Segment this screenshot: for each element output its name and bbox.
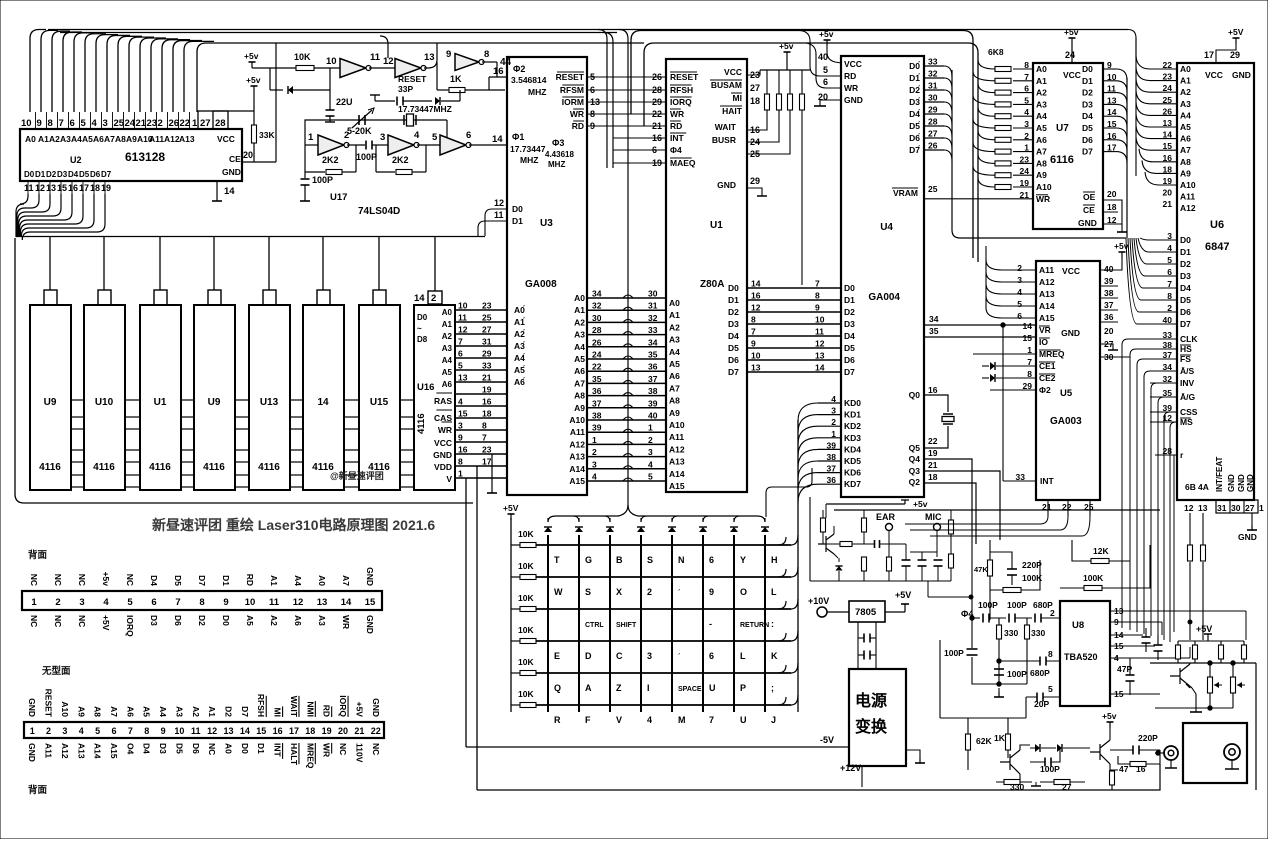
svg-text:15: 15 xyxy=(458,409,468,419)
svg-text:A3: A3 xyxy=(669,335,680,345)
svg-text:23: 23 xyxy=(147,118,158,129)
svg-text:21: 21 xyxy=(354,726,364,736)
svg-text:D4: D4 xyxy=(728,331,739,341)
transistor bottom right xyxy=(1090,740,1110,764)
svg-text:37: 37 xyxy=(648,374,658,384)
svg-text:A1́: A1́ xyxy=(514,316,526,327)
svg-text:19: 19 xyxy=(101,183,111,193)
svg-text:2: 2 xyxy=(158,118,163,129)
svg-text:VDD: VDD xyxy=(434,462,452,472)
svg-text:100P: 100P xyxy=(356,152,377,162)
svg-text:A11: A11 xyxy=(44,743,54,758)
svg-text:5: 5 xyxy=(1017,299,1022,309)
svg-text:Z80A: Z80A xyxy=(700,279,724,290)
svg-text:2: 2 xyxy=(46,726,51,736)
ground U6 xyxy=(1251,513,1253,525)
svg-text:U3: U3 xyxy=(540,218,553,229)
svg-text:14: 14 xyxy=(751,279,761,289)
svg-text:U13: U13 xyxy=(260,397,279,408)
svg-text:Q4: Q4 xyxy=(909,454,921,464)
resistor 10K xyxy=(296,66,314,71)
svg-text:G: G xyxy=(585,555,592,565)
ground U2 pin14 xyxy=(216,181,218,196)
svg-text:GA003: GA003 xyxy=(1050,416,1082,427)
audio resistors top row xyxy=(821,518,826,532)
svg-text:GND: GND xyxy=(1238,532,1257,542)
svg-text:GND: GND xyxy=(222,167,241,177)
capacitor 22U xyxy=(326,109,335,111)
svg-text:6: 6 xyxy=(151,597,156,608)
svg-text:MI: MI xyxy=(273,708,283,717)
svg-text:A7: A7 xyxy=(341,575,351,586)
svg-text:22: 22 xyxy=(928,436,938,446)
svg-text:WR: WR xyxy=(844,83,858,93)
svg-text:A8: A8 xyxy=(669,396,680,406)
svg-text:IORQ: IORQ xyxy=(338,695,348,717)
svg-text:15: 15 xyxy=(365,597,376,608)
svg-text:A14: A14 xyxy=(569,464,585,474)
svg-text:RD: RD xyxy=(322,705,332,717)
svg-text:A12: A12 xyxy=(164,134,180,144)
svg-text:220P: 220P xyxy=(1138,733,1158,743)
svg-text:34: 34 xyxy=(592,289,602,299)
svg-text:7: 7 xyxy=(128,726,133,736)
svg-text:背面: 背面 xyxy=(28,549,48,561)
svg-text:6: 6 xyxy=(466,130,471,141)
svg-text:1K: 1K xyxy=(450,74,462,84)
svg-text:8: 8 xyxy=(484,49,489,60)
IC U9 4116 xyxy=(194,305,235,490)
svg-text:7: 7 xyxy=(815,279,820,289)
svg-text:21: 21 xyxy=(1163,199,1173,209)
svg-text:D6: D6 xyxy=(191,743,201,754)
svg-text:35: 35 xyxy=(648,350,658,360)
svg-text:40: 40 xyxy=(648,411,658,421)
svg-text:6: 6 xyxy=(709,651,714,661)
svg-text:1: 1 xyxy=(648,423,653,433)
wire cassette in vertical xyxy=(809,497,811,581)
svg-text:14: 14 xyxy=(240,726,250,736)
svg-text:WR: WR xyxy=(670,109,684,119)
svg-text:NMI: NMI xyxy=(305,701,315,717)
svg-text:D2: D2 xyxy=(197,615,207,626)
svg-text:5: 5 xyxy=(1048,684,1053,694)
svg-text:35: 35 xyxy=(929,326,939,336)
svg-text:6: 6 xyxy=(709,555,714,565)
svg-text:A15: A15 xyxy=(569,476,585,486)
svg-text:VRAM: VRAM xyxy=(893,188,918,198)
svg-text:10K: 10K xyxy=(294,52,311,62)
svg-text:D2: D2 xyxy=(224,706,234,717)
svg-text:A5́: A5́ xyxy=(514,364,526,375)
svg-text:5: 5 xyxy=(81,118,87,129)
svg-text:20: 20 xyxy=(1104,326,1114,336)
svg-text:D0: D0 xyxy=(24,170,35,179)
wire D-bus vertical left xyxy=(15,238,473,503)
svg-text:16: 16 xyxy=(68,183,78,193)
IC U4 GA004 xyxy=(841,56,924,497)
svg-text:A3́: A3́ xyxy=(514,340,526,351)
svg-text:A0: A0 xyxy=(442,308,453,317)
svg-text:U8: U8 xyxy=(1072,620,1084,631)
svg-text:A4: A4 xyxy=(1180,110,1191,120)
svg-text:5: 5 xyxy=(648,472,653,482)
svg-text:30: 30 xyxy=(1231,503,1241,513)
svg-text:+5v: +5v xyxy=(246,75,261,85)
svg-text:330: 330 xyxy=(1031,628,1045,638)
svg-text:RESET: RESET xyxy=(670,72,699,82)
svg-text:4116: 4116 xyxy=(258,462,280,473)
svg-text:A1: A1 xyxy=(38,134,49,144)
svg-text:A13: A13 xyxy=(669,457,685,467)
svg-text:SPACE: SPACE xyxy=(678,686,702,693)
svg-text:CSS: CSS xyxy=(1180,407,1198,417)
svg-text:10: 10 xyxy=(326,56,337,67)
svg-text:4: 4 xyxy=(92,118,98,129)
svg-text:+5V: +5V xyxy=(895,590,911,600)
svg-text:16: 16 xyxy=(482,397,492,407)
svg-text:39: 39 xyxy=(648,398,658,408)
svg-text:A14: A14 xyxy=(1039,301,1055,311)
svg-text:A15: A15 xyxy=(669,481,685,491)
resistor 2K2 b xyxy=(375,145,377,172)
IC U2 613128 ROM xyxy=(20,129,242,181)
svg-text:A3: A3 xyxy=(574,330,585,340)
svg-text:A8: A8 xyxy=(1180,157,1191,167)
svg-text:CE: CE xyxy=(229,154,241,164)
svg-text:U6: U6 xyxy=(1210,219,1224,231)
svg-text:A9: A9 xyxy=(126,134,137,144)
svg-text:D7: D7 xyxy=(728,367,739,377)
svg-text:NC: NC xyxy=(53,574,63,586)
wire A-bus line2 xyxy=(60,32,617,34)
svg-text:D3: D3 xyxy=(149,615,159,626)
svg-text:CTRL: CTRL xyxy=(585,622,604,629)
svg-text:A5: A5 xyxy=(1036,123,1047,133)
svg-text:A2: A2 xyxy=(442,332,453,341)
svg-text:3: 3 xyxy=(647,651,652,661)
wire bundle U5 bottom to left xyxy=(905,516,1090,536)
svg-text:1: 1 xyxy=(592,435,597,445)
svg-text:BUSAM: BUSAM xyxy=(711,80,742,90)
svg-text:A6: A6 xyxy=(442,380,453,389)
svg-text:6: 6 xyxy=(823,77,828,87)
trimmer 5-20K xyxy=(358,115,360,125)
diode reset xyxy=(288,86,293,94)
svg-text:D4: D4 xyxy=(1082,111,1093,121)
svg-text:INV: INV xyxy=(1180,378,1195,388)
svg-text:A12: A12 xyxy=(569,439,585,449)
svg-text:10: 10 xyxy=(174,726,184,736)
svg-text:25: 25 xyxy=(482,313,492,323)
svg-text:D5: D5 xyxy=(844,343,855,353)
svg-text:V: V xyxy=(616,715,622,725)
svg-text:21: 21 xyxy=(482,373,492,383)
svg-text:2K2: 2K2 xyxy=(392,155,409,165)
svg-text:+5v: +5v xyxy=(779,41,794,51)
svg-text:2: 2 xyxy=(431,293,436,304)
svg-text:RAS: RAS xyxy=(434,396,452,406)
svg-text:12K: 12K xyxy=(1093,546,1109,556)
resistor 2K2 a xyxy=(304,145,306,172)
svg-text:100P: 100P xyxy=(312,175,333,185)
svg-text:GA008: GA008 xyxy=(525,279,557,290)
svg-text:A1: A1 xyxy=(1036,76,1047,86)
svg-text:U10: U10 xyxy=(95,397,114,408)
svg-text:100P: 100P xyxy=(978,600,998,610)
svg-text:12: 12 xyxy=(751,303,761,313)
svg-text:NC: NC xyxy=(29,574,39,586)
svg-text:A3: A3 xyxy=(317,615,327,626)
svg-text:A4: A4 xyxy=(669,347,680,357)
svg-text:26: 26 xyxy=(928,141,938,151)
svg-text:30: 30 xyxy=(648,289,658,299)
svg-text:21: 21 xyxy=(928,460,938,470)
transistor out xyxy=(1170,663,1192,688)
svg-text:29: 29 xyxy=(750,176,760,186)
svg-text:15: 15 xyxy=(256,726,266,736)
wire U7 D bus vertical xyxy=(1126,78,1128,238)
wire D-bus horizontal to DRAMs xyxy=(16,236,485,238)
wire U3 D0 D1 stubs xyxy=(478,209,507,236)
svg-text:4: 4 xyxy=(1017,287,1022,297)
svg-text:NC: NC xyxy=(77,574,87,586)
svg-text:A7: A7 xyxy=(104,134,115,144)
svg-text:A12: A12 xyxy=(1039,277,1055,287)
svg-text:A10: A10 xyxy=(669,420,685,430)
svg-text:1: 1 xyxy=(192,118,198,129)
svg-text:RESET: RESET xyxy=(556,72,585,82)
svg-text:110V: 110V xyxy=(354,743,364,763)
svg-text:11: 11 xyxy=(370,52,381,63)
svg-text:28: 28 xyxy=(928,117,938,127)
svg-text:D2: D2 xyxy=(1082,88,1093,98)
svg-text:D7: D7 xyxy=(844,367,855,377)
svg-text:16: 16 xyxy=(493,66,504,77)
svg-text:A8: A8 xyxy=(1036,158,1047,168)
svg-text:2K2: 2K2 xyxy=(322,155,339,165)
ground U16 xyxy=(491,454,493,488)
svg-text:NC: NC xyxy=(125,574,135,586)
svg-text:27: 27 xyxy=(1245,503,1255,513)
svg-text:3: 3 xyxy=(79,597,84,608)
svg-text:变换: 变换 xyxy=(855,717,888,736)
svg-text:8: 8 xyxy=(1048,649,1053,659)
svg-text:9: 9 xyxy=(458,433,463,443)
keyboard column 4 xyxy=(640,535,642,712)
svg-text:31: 31 xyxy=(1217,503,1227,513)
svg-text:3: 3 xyxy=(380,132,385,143)
svg-text:18: 18 xyxy=(482,409,492,419)
svg-text:A6: A6 xyxy=(293,615,303,626)
svg-text:D0: D0 xyxy=(221,615,231,626)
wire A-bus line to U6 xyxy=(48,29,1128,31)
svg-text:33: 33 xyxy=(482,361,492,371)
svg-text:6: 6 xyxy=(458,349,463,359)
IC U10 4116 xyxy=(84,305,125,490)
svg-text:1K: 1K xyxy=(994,733,1006,743)
capacitors under 7805 xyxy=(858,622,876,668)
svg-text:31: 31 xyxy=(482,337,492,347)
svg-text:4.43618: 4.43618 xyxy=(545,150,574,159)
svg-text:GND: GND xyxy=(365,567,375,586)
svg-text:4A: 4A xyxy=(1198,482,1209,492)
svg-text:OE: OE xyxy=(1083,192,1096,202)
svg-text:WAIT: WAIT xyxy=(715,122,737,132)
svg-text:3: 3 xyxy=(62,726,67,736)
svg-text:D0: D0 xyxy=(728,283,739,293)
svg-text:U1: U1 xyxy=(154,397,167,408)
svg-text:+12V: +12V xyxy=(840,763,861,773)
svg-text:U5: U5 xyxy=(1060,388,1073,399)
keyboard column 6 xyxy=(702,535,704,712)
svg-text:D5: D5 xyxy=(728,343,739,353)
svg-text:11: 11 xyxy=(269,597,280,608)
svg-text:23: 23 xyxy=(482,445,492,455)
svg-text:A1: A1 xyxy=(269,575,279,586)
svg-text:D4́: D4́ xyxy=(909,108,921,119)
svg-text:GND: GND xyxy=(27,743,37,762)
svg-text:10K: 10K xyxy=(518,593,534,603)
svg-text:12: 12 xyxy=(458,325,468,335)
svg-text:D1: D1 xyxy=(35,170,46,179)
svg-text:背面: 背面 xyxy=(28,784,48,796)
svg-text:NC: NC xyxy=(53,615,63,627)
wires U4 D0-D7 right xyxy=(924,65,944,67)
svg-text:26: 26 xyxy=(592,337,602,347)
svg-text:13: 13 xyxy=(1198,503,1208,513)
svg-text:20: 20 xyxy=(1163,188,1173,198)
svg-text:D3: D3 xyxy=(1082,99,1093,109)
svg-text:A5: A5 xyxy=(669,359,680,369)
keyboard column 3 xyxy=(609,535,611,712)
power +5v reset xyxy=(251,62,253,68)
svg-text:D1: D1 xyxy=(221,575,231,586)
svg-text:8: 8 xyxy=(48,118,53,129)
svg-text:A2: A2 xyxy=(1036,88,1047,98)
svg-text:D0: D0 xyxy=(1082,64,1093,74)
svg-text:D2: D2 xyxy=(728,307,739,317)
svg-text:NC: NC xyxy=(371,743,381,755)
svg-text:A8: A8 xyxy=(115,134,126,144)
svg-text:100P: 100P xyxy=(944,648,964,658)
keyboard left rail xyxy=(510,518,512,712)
svg-text:4116: 4116 xyxy=(149,462,171,473)
wire ear out to phi4 xyxy=(928,596,971,598)
svg-text:RD: RD xyxy=(245,574,255,586)
svg-text:WR: WR xyxy=(322,743,332,757)
svg-text:A0: A0 xyxy=(25,134,36,144)
svg-text:5: 5 xyxy=(127,597,133,608)
svg-text:11: 11 xyxy=(494,210,504,220)
svg-text:A9: A9 xyxy=(669,408,680,418)
svg-text:13: 13 xyxy=(46,183,56,193)
svg-text:+5V: +5V xyxy=(354,702,364,718)
svg-text:GND: GND xyxy=(1078,218,1097,228)
svg-text:A10: A10 xyxy=(1036,182,1052,192)
svg-text:A4: A4 xyxy=(574,342,585,352)
resistor base xyxy=(840,542,852,547)
svg-text:17: 17 xyxy=(79,183,89,193)
svg-text:3: 3 xyxy=(1017,275,1022,285)
IC U3 GA008 xyxy=(507,57,587,495)
svg-text:A2: A2 xyxy=(669,322,680,332)
svg-text:+5v: +5v xyxy=(1064,27,1079,37)
svg-text:D6́: D6́ xyxy=(909,132,921,143)
svg-text:U7: U7 xyxy=(1056,123,1069,134)
svg-text:U: U xyxy=(709,683,716,693)
right resistors xyxy=(1178,640,1244,642)
svg-text:D6: D6 xyxy=(728,355,739,365)
svg-text:WR: WR xyxy=(341,615,351,629)
svg-text::: : xyxy=(771,619,774,629)
svg-text:A2: A2 xyxy=(191,706,201,717)
svg-text:10K: 10K xyxy=(518,561,534,571)
svg-text:6: 6 xyxy=(111,726,116,736)
svg-text:A1: A1 xyxy=(1180,76,1191,86)
audio caps bottom xyxy=(902,559,911,561)
svg-text:K: K xyxy=(771,651,778,661)
svg-text:KD1: KD1 xyxy=(844,410,861,420)
svg-text:F: F xyxy=(585,715,591,725)
svg-text:I: I xyxy=(647,683,650,693)
svg-text:30: 30 xyxy=(592,313,602,323)
svg-text:6K8: 6K8 xyxy=(988,47,1004,57)
svg-text:22U: 22U xyxy=(336,97,353,107)
svg-text:D3́: D3́ xyxy=(909,96,921,107)
svg-text:A8: A8 xyxy=(574,391,585,401)
svg-text:GND: GND xyxy=(1061,328,1080,338)
svg-text:A1: A1 xyxy=(574,305,585,315)
svg-text:9: 9 xyxy=(161,726,166,736)
svg-text:;: ; xyxy=(771,683,774,693)
svg-text:RD: RD xyxy=(670,121,682,131)
svg-text:100P: 100P xyxy=(1007,600,1027,610)
wires KD fan to keyboard riser xyxy=(798,403,818,421)
IC U9 4116 xyxy=(30,305,71,490)
svg-text:D5́: D5́ xyxy=(909,120,921,131)
diodes bottom xyxy=(1035,744,1040,752)
svg-text:O: O xyxy=(740,587,747,597)
svg-text:12: 12 xyxy=(815,339,825,349)
wires A0-A15 bus U3 to Z80 xyxy=(587,297,666,299)
svg-text:2: 2 xyxy=(1017,263,1022,273)
svg-text:D6: D6 xyxy=(844,355,855,365)
svg-text:2: 2 xyxy=(592,447,597,457)
svg-text:A3: A3 xyxy=(1180,99,1191,109)
svg-text:7: 7 xyxy=(458,337,463,347)
svg-text:A7: A7 xyxy=(1036,147,1047,157)
svg-text:A14: A14 xyxy=(93,743,103,759)
keyboard column 5 xyxy=(671,535,673,712)
svg-text:C: C xyxy=(616,651,623,661)
svg-text:A3: A3 xyxy=(60,134,71,144)
svg-text:D7́: D7́ xyxy=(909,144,921,155)
power +5V U6 xyxy=(1235,38,1237,44)
svg-text:A5: A5 xyxy=(442,368,453,377)
svg-text:40: 40 xyxy=(1104,264,1114,274)
svg-text:6: 6 xyxy=(70,118,75,129)
RCA jack left xyxy=(1164,746,1178,760)
svg-text:33: 33 xyxy=(928,57,938,67)
svg-text:SHIFT: SHIFT xyxy=(616,622,637,629)
svg-text:A2: A2 xyxy=(1180,87,1191,97)
regulator 7805 xyxy=(849,601,885,622)
svg-text:A7: A7 xyxy=(1180,145,1191,155)
svg-text:38: 38 xyxy=(648,386,658,396)
svg-text:A1: A1 xyxy=(207,706,217,717)
svg-text:A10: A10 xyxy=(569,415,585,425)
